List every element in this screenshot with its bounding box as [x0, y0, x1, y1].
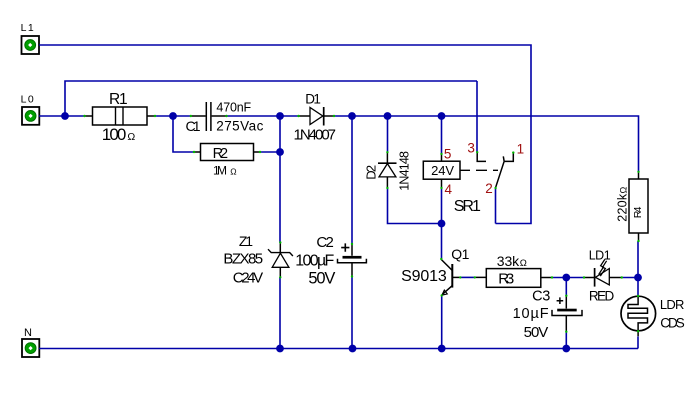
SR1 dashed actuator link — [460, 169, 498, 171]
svg-text:CDS: CDS — [660, 315, 685, 330]
junction node R3/C3/LED — [562, 274, 570, 282]
svg-text:24V: 24V — [431, 163, 454, 178]
junction node coil pin4/D2 — [438, 220, 446, 228]
junction bottom rail Z1 — [276, 345, 284, 353]
wire node to C2 — [351, 116, 353, 244]
svg-text:Ω: Ω — [520, 258, 527, 269]
junction node LED/R4/LDR — [634, 274, 642, 282]
svg-text:L0: L0 — [21, 93, 34, 105]
junction bottom rail C3 — [562, 345, 570, 353]
svg-text:33k: 33k — [497, 253, 520, 269]
svg-text:C2: C2 — [316, 234, 334, 251]
resistor R2 — [193, 144, 261, 178]
SR1 armature pin 2 — [494, 156, 504, 189]
svg-text:D2: D2 — [363, 165, 378, 180]
wire relay pin3 drop — [476, 81, 478, 152]
svg-text:R1: R1 — [109, 91, 128, 108]
wire L1 top rail — [39, 45, 531, 224]
svg-text:Ω: Ω — [127, 131, 135, 143]
resistor R4 — [615, 171, 648, 243]
junction node coil pin5 — [438, 112, 446, 120]
wire node to D2 — [387, 116, 389, 152]
svg-text:S9013: S9013 — [401, 268, 447, 285]
svg-text:4: 4 — [445, 182, 453, 197]
wire coil pin4 to Q1 collector — [441, 187, 443, 259]
svg-text:R2: R2 — [213, 146, 229, 162]
SR1 contact pin 1 — [504, 151, 514, 161]
relay coil SR1 — [423, 153, 460, 189]
svg-text:Z1: Z1 — [239, 233, 253, 249]
LDR photoresistor — [621, 295, 685, 337]
capacitor C2 — [295, 234, 366, 288]
capacitor C3 — [513, 288, 582, 341]
svg-text:LDR: LDR — [660, 297, 685, 312]
terminal N — [22, 327, 39, 357]
junction node R1/C1/R2 — [169, 112, 177, 120]
wire Q1 emitter to bottom rail — [441, 296, 443, 349]
wire C1 to D1 — [227, 115, 299, 117]
svg-text:R4: R4 — [632, 206, 644, 218]
svg-text:100: 100 — [102, 125, 127, 144]
capacitor C1 — [186, 100, 264, 134]
junction node D2 top — [384, 112, 392, 120]
LED LD1 — [583, 249, 623, 304]
wire LDR to bottom rail — [637, 337, 639, 349]
SR1 contact pin 3 — [476, 151, 486, 161]
svg-text:50V: 50V — [524, 324, 549, 341]
junction node C1/D1/Z1 — [276, 112, 284, 120]
wire Q1 base to R3 — [460, 276, 475, 278]
resistor R3 — [474, 253, 554, 287]
resistor R1 — [83, 91, 156, 144]
wire R2 right branch — [260, 151, 280, 153]
wire L0 upper branch — [65, 81, 477, 116]
svg-text:275Vac: 275Vac — [216, 118, 263, 133]
wire R2 left branch — [173, 116, 194, 152]
wire D1 to R4 corner — [334, 116, 639, 172]
terminal L1 — [21, 22, 39, 54]
zener Z1 — [223, 233, 293, 286]
wire D2 to coil bottom node — [388, 188, 442, 223]
wire node to Z1 — [279, 116, 281, 243]
svg-text:R3: R3 — [498, 271, 514, 288]
svg-text:BZX85: BZX85 — [223, 251, 263, 268]
wire bottom rail — [39, 348, 638, 350]
diode D1 — [294, 91, 337, 143]
wire R4 to LDR — [637, 241, 639, 296]
svg-text:10µF: 10µF — [513, 306, 549, 322]
wire relay pin2 drop — [495, 188, 497, 223]
svg-text:220kΩ: 220kΩ — [615, 187, 629, 222]
svg-text:Q1: Q1 — [451, 246, 469, 262]
wire node to coil pin5 — [441, 116, 443, 154]
wire node to C3 — [565, 278, 567, 296]
svg-text:C1: C1 — [186, 118, 201, 134]
svg-text:SR1: SR1 — [454, 198, 481, 215]
svg-text:C24V: C24V — [233, 270, 263, 287]
wire L0 to R1 — [39, 115, 85, 117]
svg-text:L1: L1 — [21, 22, 34, 34]
svg-text:C3: C3 — [532, 288, 550, 304]
svg-text:D1: D1 — [305, 91, 321, 106]
wire LED to R4 node — [622, 277, 639, 279]
svg-text:1N4007: 1N4007 — [294, 127, 337, 144]
svg-text:1: 1 — [517, 142, 525, 157]
svg-text:5: 5 — [444, 146, 452, 161]
terminal L0 — [21, 93, 40, 124]
svg-text:RED: RED — [589, 289, 615, 304]
svg-text:1M: 1M — [213, 164, 227, 178]
svg-text:470nF: 470nF — [216, 100, 251, 114]
wire C2 to bottom rail — [351, 277, 353, 349]
svg-text:Ω: Ω — [230, 167, 236, 177]
svg-text:50V: 50V — [308, 270, 335, 288]
junction node L0/R1 — [61, 112, 69, 120]
svg-text:100µF: 100µF — [295, 253, 334, 270]
diode D2 — [363, 151, 411, 191]
junction node D1/C2 — [348, 112, 356, 120]
junction bottom rail C2 — [349, 345, 357, 353]
transistor Q1 — [401, 246, 470, 297]
svg-text:3: 3 — [467, 140, 475, 155]
wire R1 to C1 — [155, 115, 191, 117]
junction bottom rail Q1 emitter — [438, 345, 446, 353]
svg-text:N: N — [24, 327, 32, 339]
wire Z1 to bottom rail — [279, 277, 281, 348]
wire R3 to LED node — [552, 277, 584, 279]
wire C3 to bottom rail — [565, 332, 567, 349]
svg-text:2: 2 — [485, 181, 493, 196]
junction node R2/Z1 — [276, 148, 284, 156]
svg-text:1N4148: 1N4148 — [397, 151, 411, 191]
svg-text:LD1: LD1 — [589, 249, 611, 263]
